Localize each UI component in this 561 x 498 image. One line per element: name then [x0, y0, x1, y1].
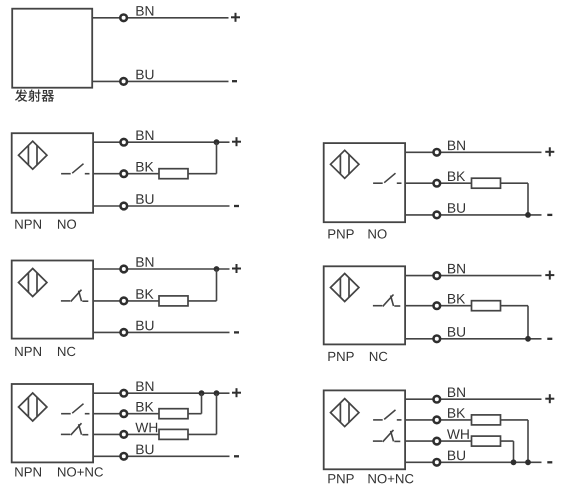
terminal BN PNP NC	[434, 272, 441, 279]
caption NO PNP NO	[368, 229, 386, 238]
wire BN PNP NC	[405, 275, 541, 277]
plus terminal NPN NO+NC	[232, 388, 241, 397]
wire BK NPN NC	[93, 300, 216, 302]
caption PNP PNP NO	[328, 229, 353, 238]
load resistor PNP NC	[472, 301, 501, 311]
wire WH NPN NO+NC	[93, 433, 216, 435]
sensor box NPN NO	[12, 133, 93, 213]
wire BU PNP NC	[405, 338, 541, 340]
minus terminal PNP NO+NC	[547, 461, 552, 463]
label 发射器 (transmitter)	[15, 89, 54, 101]
caption NO+NC PNP NO+NC	[368, 474, 413, 483]
minus terminal PNP NO	[547, 214, 552, 216]
minus terminal PNP NC	[547, 338, 552, 340]
minus terminal NPN NO	[234, 205, 239, 207]
label BU PNP NO	[448, 203, 465, 213]
terminal BU PNP NO+NC	[434, 459, 441, 466]
label BN PNP NO+NC	[448, 388, 465, 397]
terminal BN NPN NO+NC	[121, 390, 128, 397]
label WH NPN NO+NC	[135, 423, 157, 432]
terminal WH PNP NO+NC	[434, 438, 441, 445]
terminal BN transmitter	[120, 14, 127, 21]
switch contact NO NPN NO	[61, 164, 89, 174]
plus terminal PNP NO+NC	[545, 394, 554, 403]
wire BK to + rail NPN NO	[216, 142, 218, 174]
terminal BN PNP NO+NC	[434, 396, 441, 403]
label BK PNP NO	[448, 172, 465, 181]
minus terminal transmitter	[232, 80, 237, 82]
caption NPN NPN NO	[15, 220, 41, 229]
sensor symbol PNP NO	[331, 150, 359, 178]
wire BK NPN NO	[93, 173, 216, 175]
junction on + rail NPN NO	[214, 139, 220, 145]
wire BK PNP NC	[405, 305, 528, 307]
wire BK NPN NO+NC	[93, 413, 201, 415]
load resistor BK NPN NO+NC	[159, 409, 188, 419]
caption NO+NC NPN NO+NC	[58, 467, 103, 476]
plus terminal NPN NC	[232, 264, 241, 273]
sensor box PNP NC	[324, 266, 405, 344]
wire BN PNP NO+NC	[405, 398, 541, 400]
load resistor WH NPN NO+NC	[159, 429, 188, 439]
junction on + rail NPN NC	[214, 266, 220, 272]
wire BN NPN NC	[93, 268, 229, 270]
junction 2 on - rail PNP NO+NC	[511, 459, 517, 465]
plus terminal PNP NO	[545, 147, 554, 156]
wire BN PNP NO	[405, 151, 541, 153]
sensor symbol NPN NO	[19, 141, 47, 169]
terminal BN NPN NC	[121, 266, 128, 273]
terminal BU NPN NO+NC	[121, 453, 128, 460]
caption NPN NPN NC	[15, 347, 41, 356]
sensor symbol NPN NO+NC	[19, 393, 47, 421]
wire BK to - rail PNP NO	[527, 183, 529, 215]
junction 1 on + rail NPN NO+NC	[199, 390, 205, 396]
transmitter box U0	[12, 9, 92, 88]
load resistor WH PNP NO+NC	[472, 436, 501, 446]
load resistor BK PNP NO+NC	[472, 415, 501, 425]
wire WH PNP NO+NC	[405, 440, 513, 442]
switch contact NO PNP NO+NC	[373, 410, 401, 420]
wire BK PNP NO+NC	[405, 419, 528, 421]
label BU NPN NO	[136, 194, 153, 204]
wire BU NPN NO+NC	[93, 455, 229, 457]
plus terminal transmitter	[231, 13, 240, 22]
caption NO NPN NO	[58, 219, 76, 228]
sensor symbol NPN NC	[19, 269, 47, 297]
label BK NPN NC	[136, 289, 153, 298]
terminal BK NPN NO	[121, 170, 128, 177]
terminal BU NPN NO	[121, 203, 128, 210]
label WH PNP NO+NC	[447, 429, 469, 438]
caption PNP PNP NC	[328, 352, 353, 361]
load resistor NPN NO	[159, 169, 188, 179]
wire BN transmitter	[92, 17, 228, 19]
wire BU NPN NC	[93, 331, 229, 333]
label BN PNP NO	[448, 141, 465, 150]
terminal BK PNP NO+NC	[434, 417, 441, 424]
label BN PNP NC	[448, 264, 465, 273]
wire BK to + rail NPN NC	[216, 269, 218, 301]
caption NC NPN NC	[58, 347, 75, 356]
wire BK to - rail PNP NC	[527, 306, 529, 339]
sensor box PNP NO+NC	[324, 390, 405, 469]
switch contact NO PNP NO	[373, 173, 401, 183]
sensor box NPN NC	[12, 261, 93, 339]
wire BU PNP NO+NC	[405, 461, 541, 463]
wire BU NPN NO	[93, 205, 229, 207]
wire WH to + rail NPN NO+NC	[216, 393, 218, 434]
label BN NPN NO+NC	[136, 382, 153, 391]
wire BU PNP NO	[405, 214, 541, 216]
caption NPN NPN NO+NC	[15, 467, 41, 476]
label BU NPN NO+NC	[136, 445, 153, 455]
load resistor NPN NC	[159, 296, 188, 306]
terminal BU NPN NC	[121, 329, 128, 336]
label BK PNP NO+NC	[448, 408, 465, 417]
wire WH to - rail PNP NO+NC	[513, 441, 515, 462]
terminal BK PNP NC	[434, 302, 441, 309]
terminal BK NPN NC	[121, 298, 128, 305]
caption NC PNP NC	[370, 352, 387, 361]
label BK NPN NO	[136, 162, 153, 171]
sensor symbol PNP NC	[331, 274, 359, 302]
plus terminal PNP NC	[545, 271, 554, 280]
label BN NPN NO	[136, 131, 153, 140]
wire BK to + rail NPN NO+NC	[201, 393, 203, 414]
terminal BK PNP NO	[434, 180, 441, 187]
sensor box PNP NO	[324, 143, 405, 222]
junction 1 on - rail PNP NO+NC	[525, 459, 531, 465]
junction on - rail PNP NC	[525, 336, 531, 342]
sensor symbol PNP NO+NC	[331, 399, 359, 427]
plus terminal NPN NO	[232, 137, 241, 146]
minus terminal NPN NC	[234, 331, 239, 333]
terminal BU PNP NC	[434, 336, 441, 343]
wire BN NPN NO	[93, 141, 229, 143]
junction 2 on + rail NPN NO+NC	[214, 390, 220, 396]
wire BN NPN NO+NC	[93, 392, 229, 394]
junction on - rail PNP NO	[525, 212, 531, 218]
label BN transmitter	[136, 6, 153, 15]
label BK NPN NO+NC	[136, 402, 153, 411]
switch contact NC NPN NC	[61, 290, 88, 302]
wire BU transmitter	[92, 80, 228, 82]
switch contact NO NPN NO+NC	[61, 404, 89, 414]
terminal BK NPN NO+NC	[121, 410, 128, 417]
terminal BU transmitter	[120, 78, 127, 85]
label BU NPN NC	[136, 321, 153, 331]
caption PNP PNP NO+NC	[328, 474, 353, 483]
label BU PNP NO+NC	[448, 451, 465, 461]
label BU transmitter	[136, 70, 153, 80]
label BK PNP NC	[448, 294, 465, 303]
terminal BN NPN NO	[121, 139, 128, 146]
switch contact NC NPN NO+NC	[61, 423, 88, 435]
switch contact NC PNP NO+NC	[373, 430, 400, 442]
wire BK PNP NO	[405, 182, 528, 184]
sensor box NPN NO+NC	[12, 384, 93, 462]
terminal BN PNP NO	[434, 149, 441, 156]
minus terminal NPN NO+NC	[234, 455, 239, 457]
wire BK to - rail PNP NO+NC	[527, 420, 529, 462]
terminal BU PNP NO	[434, 212, 441, 219]
label BU PNP NC	[448, 327, 465, 337]
switch contact NC PNP NC	[373, 295, 400, 307]
load resistor PNP NO	[472, 178, 501, 188]
label BN NPN NC	[136, 257, 153, 266]
terminal WH NPN NO+NC	[121, 431, 128, 438]
